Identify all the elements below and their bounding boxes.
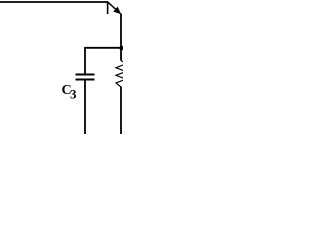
svg-text:3: 3 [70, 87, 77, 102]
wire middle horizontal [85, 47, 122, 49]
transistor Q1 emitter arrowhead [113, 7, 121, 15]
capacitor C3 top lead [84, 47, 86, 74]
resistor zigzag [116, 61, 126, 88]
capacitor C3 bottom lead [84, 81, 86, 135]
transistor Q1 emitter diagonal [108, 2, 119, 11]
wire resistor bottom lead [120, 87, 122, 134]
wire resistor top lead [120, 48, 122, 61]
wire vertical right upper [120, 14, 122, 49]
wire top horizontal [0, 1, 108, 3]
transistor Q1 base bar [107, 1, 109, 14]
capacitor C3 top plate [76, 73, 95, 75]
node junction dot [119, 46, 124, 51]
capacitor C3 bottom plate [76, 78, 95, 80]
